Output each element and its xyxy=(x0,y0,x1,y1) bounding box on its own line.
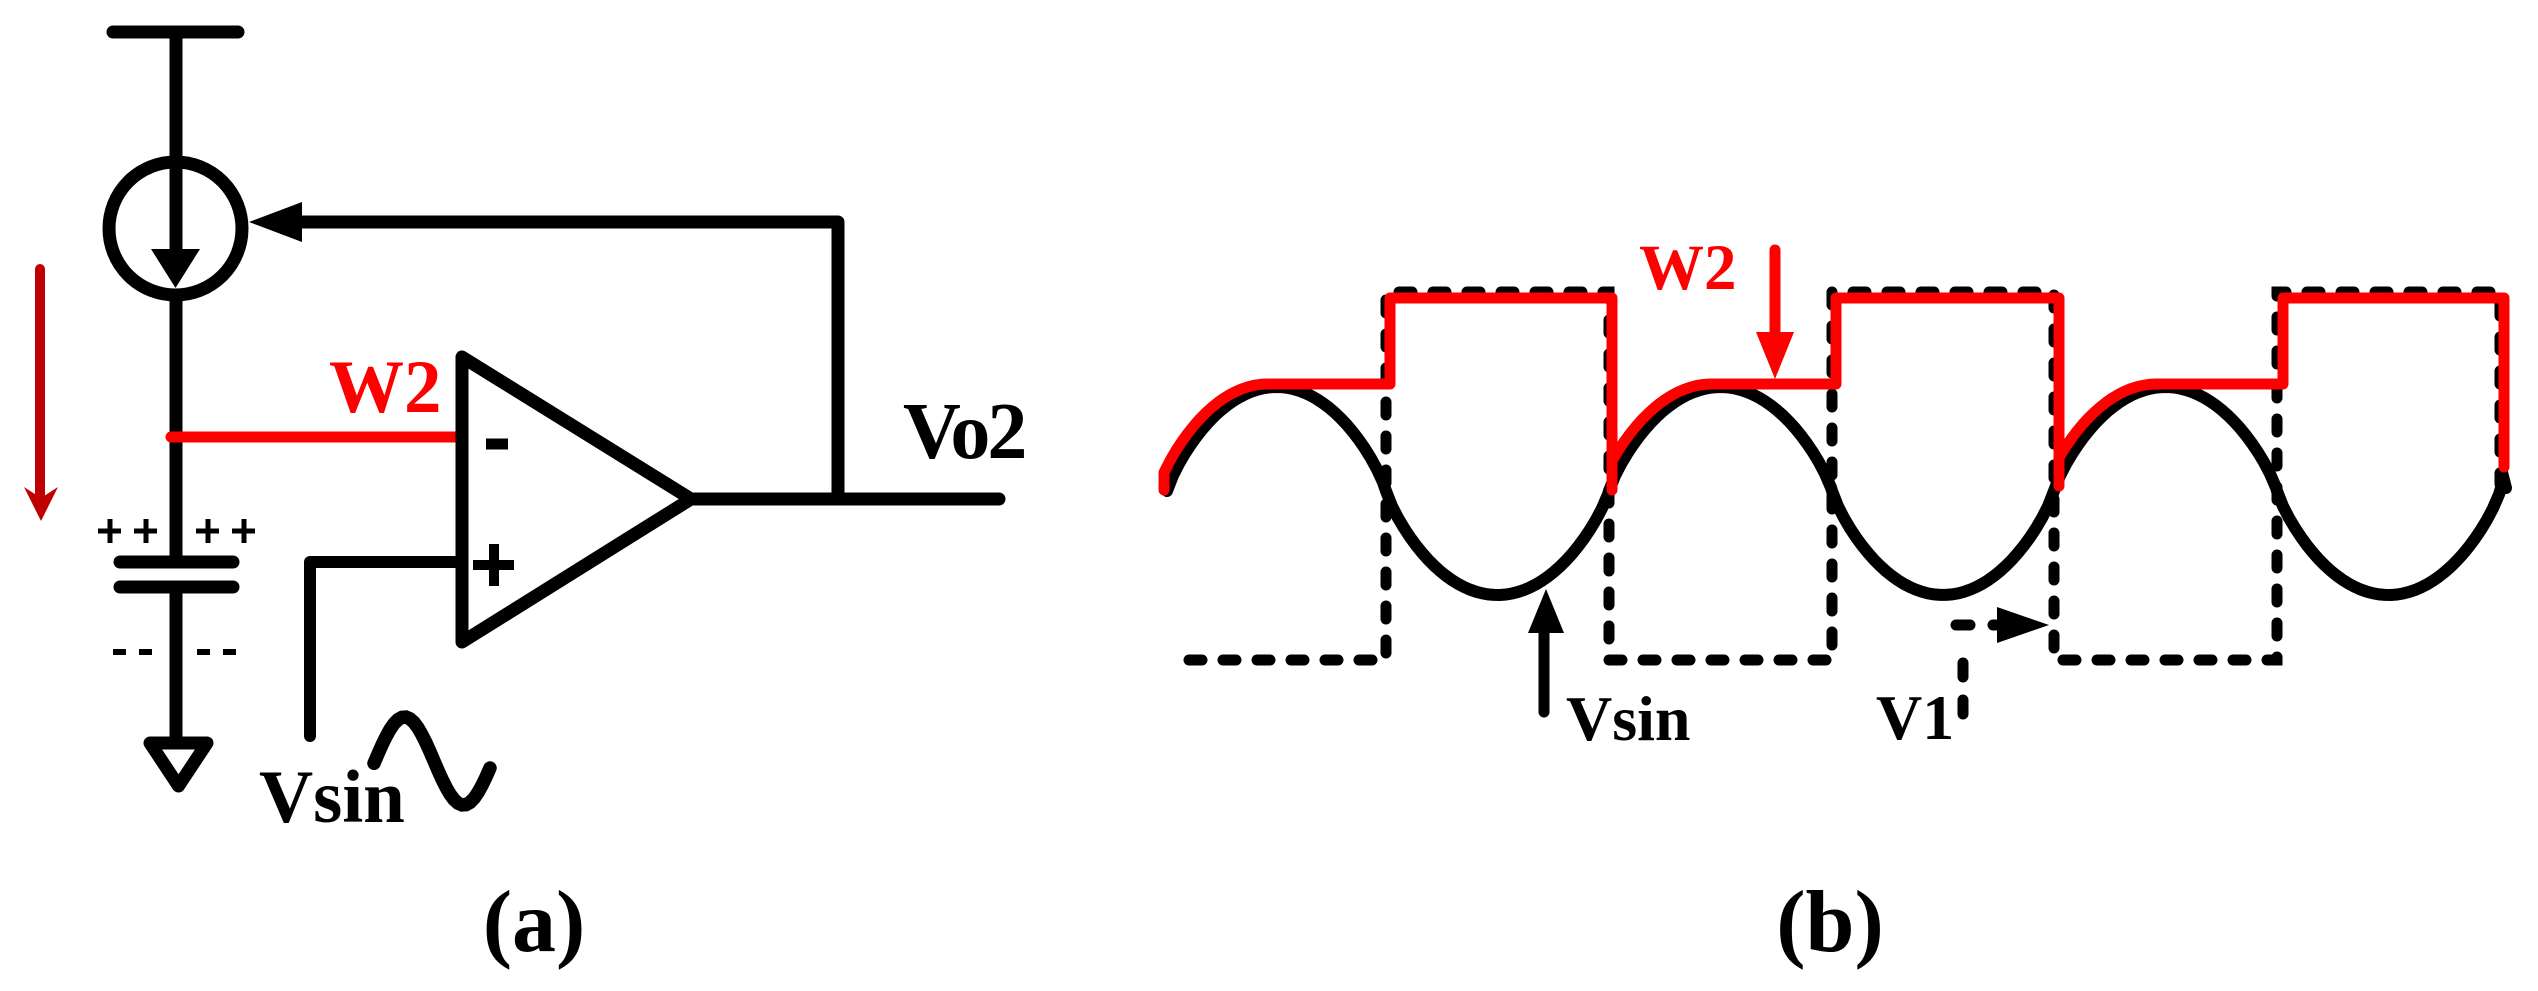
non-inverting input wire from Vsin xyxy=(310,562,458,736)
svg-text:V1: V1 xyxy=(1876,682,1954,753)
red wire W2 to inverting input xyxy=(171,432,459,443)
red waveform W2 xyxy=(1164,298,2504,490)
svg-text:Vo2: Vo2 xyxy=(903,388,1024,476)
svg-text:W2: W2 xyxy=(329,346,442,429)
minus charge marks xyxy=(113,649,236,655)
leader arrow head xyxy=(1997,607,2049,643)
svg-text:Vsin: Vsin xyxy=(1566,683,1691,754)
plus charge marks xyxy=(98,519,255,543)
feedback wire (top horizontal + right vertical) xyxy=(298,222,838,499)
op-amp U1 triangle xyxy=(462,357,691,642)
current source I1 circle xyxy=(109,162,242,295)
feedback arrow head into current source xyxy=(249,202,302,242)
svg-text:Vsin: Vsin xyxy=(259,756,405,839)
svg-text:(a): (a) xyxy=(483,874,586,971)
capacitor C top plate xyxy=(120,556,233,569)
black arrow pointing to Vsin trace xyxy=(1539,633,1550,712)
sine source squiggle xyxy=(374,717,490,805)
ground symbol xyxy=(150,743,207,786)
dark red downward current arrow xyxy=(35,269,45,496)
dashed square wave V1 xyxy=(1189,292,2500,660)
op-amp minus sign xyxy=(486,439,508,450)
wire capacitor to ground xyxy=(170,593,183,744)
output wire Vo2 xyxy=(691,493,999,506)
supply rail bar xyxy=(113,26,238,39)
capacitor C bottom plate xyxy=(120,581,233,594)
black sine Vsin xyxy=(1167,387,2506,595)
red arrow pointing to W2 trace xyxy=(1770,250,1781,333)
node wire: current source to capacitor xyxy=(170,294,183,561)
svg-text:(b): (b) xyxy=(1776,874,1884,971)
current source arrow head xyxy=(151,249,200,288)
wire from rail into current source xyxy=(170,32,183,250)
op-amp plus sign xyxy=(473,544,514,586)
dashed leader from V1 to square wave xyxy=(1958,654,1969,714)
svg-text:W2: W2 xyxy=(1639,232,1737,304)
